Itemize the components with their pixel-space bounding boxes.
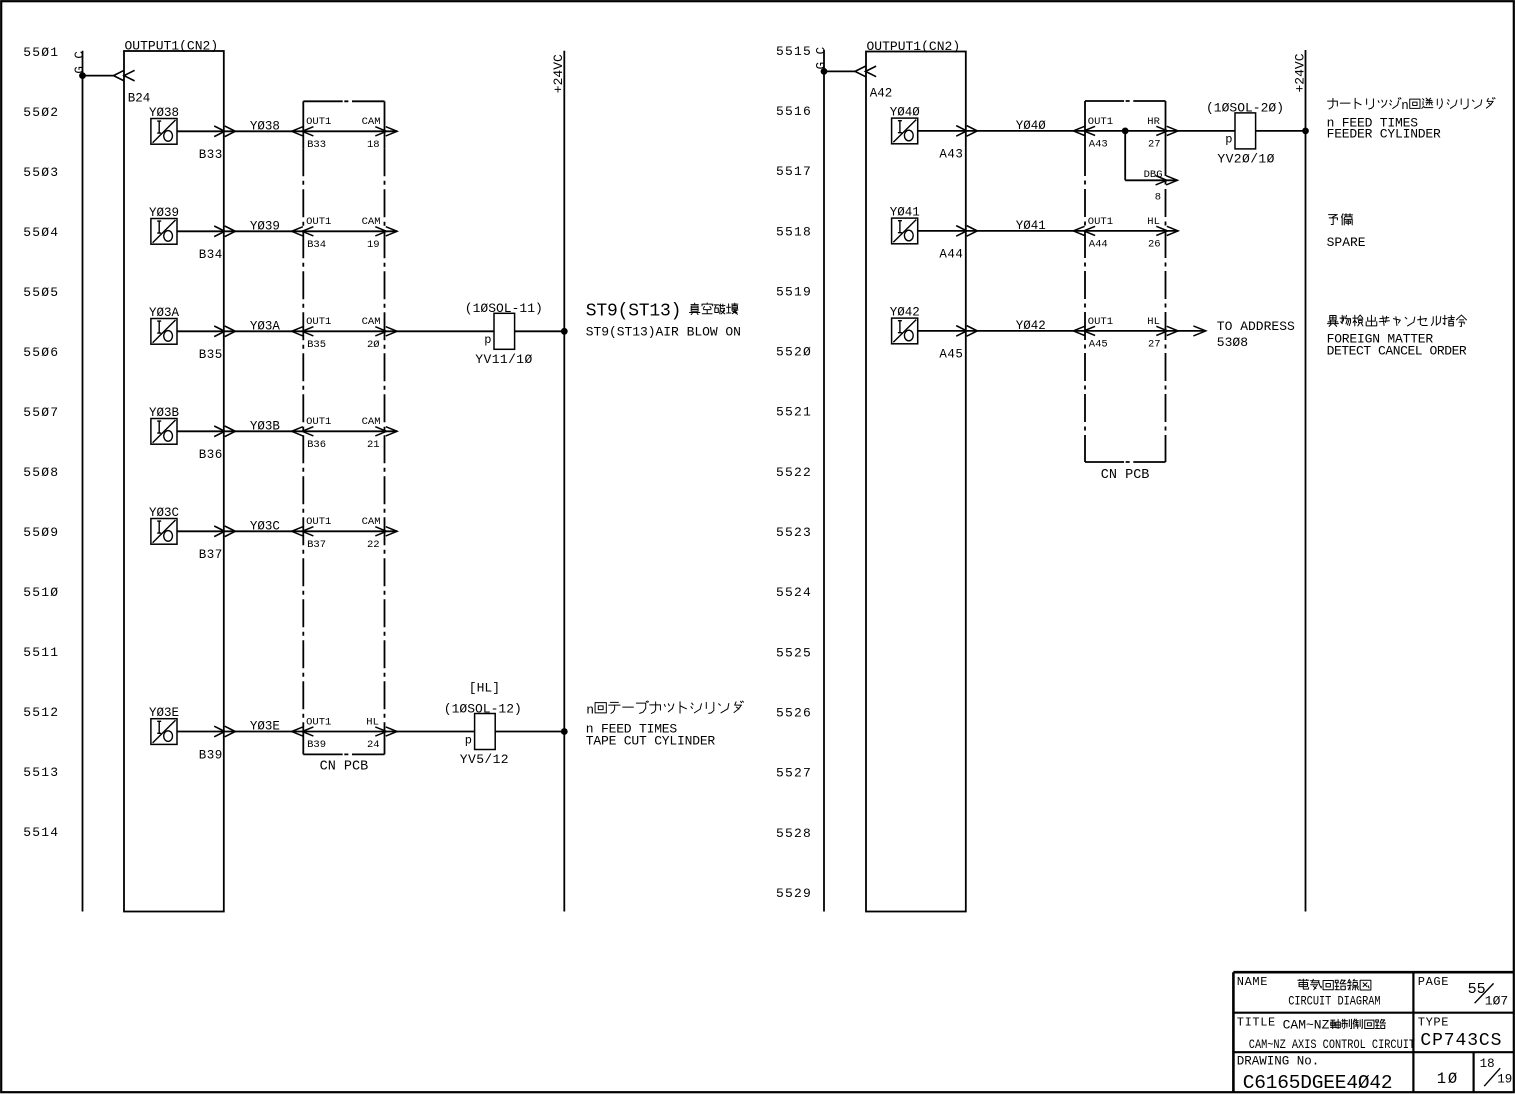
- node annotation FOREIGN MATTER / DETECT CANCEL ORDER: [1327, 331, 1467, 358]
- wire Y039 from module through OUTPUT1 edge to CN PCB: [177, 230, 397, 232]
- svg-text:DETECT CANCEL ORDER: DETECT CANCEL ORDER: [1327, 343, 1467, 358]
- wire Y041 from module through OUTPUT1 edge to CN PCB: [918, 230, 1178, 232]
- svg-text:CAM: CAM: [362, 116, 381, 128]
- svg-text:55Ø5: 55Ø5: [23, 285, 59, 300]
- junction on +24VC rail (Y03E): [561, 728, 568, 735]
- node A45 (pin label under Y042): [939, 348, 963, 362]
- svg-text:A43: A43: [939, 148, 963, 162]
- svg-text:CN PCB: CN PCB: [1101, 468, 1150, 483]
- node line 5504: [23, 225, 59, 240]
- connector arrows at CN PCB left edge (Y040): [1073, 126, 1095, 135]
- svg-text:OUT1: OUT1: [1088, 216, 1113, 228]
- node line 5505: [23, 285, 59, 300]
- node A43 (pin label under Y040): [939, 148, 963, 162]
- pin OUT1 / B35 (Y03A): [306, 316, 331, 351]
- svg-text:CAM: CAM: [362, 316, 381, 328]
- svg-text:27: 27: [1148, 338, 1161, 350]
- svg-text:5512: 5512: [23, 705, 59, 720]
- svg-text:HR: HR: [1147, 116, 1160, 128]
- svg-text:B33: B33: [199, 148, 223, 162]
- svg-text:5522: 5522: [776, 465, 812, 480]
- node sheet 18/19: [1480, 1057, 1513, 1086]
- node line 5519: [776, 284, 812, 299]
- svg-text:552Ø: 552Ø: [776, 345, 812, 360]
- svg-text:CAM: CAM: [362, 516, 381, 528]
- pin OUT1 / B34 (Y039): [306, 216, 331, 251]
- svg-text:1Ø7: 1Ø7: [1485, 994, 1508, 1009]
- I/O output module Y041: [890, 206, 920, 244]
- wire Y03E to solenoid YV5/12: [397, 731, 475, 733]
- node annotation ST9(ST13) vacuum break (JP): [586, 301, 738, 321]
- wire solenoid to +24VC rail (Y040): [1256, 130, 1306, 132]
- svg-text:5528: 5528: [776, 826, 812, 841]
- connector arrows at OUTPUT1 edge (Y03E): [214, 726, 235, 737]
- svg-text:OUT1: OUT1: [306, 416, 331, 428]
- connector arrows at OUTPUT1 edge (Y038): [214, 126, 235, 137]
- wire G C rail (left): [82, 51, 84, 912]
- node line 5525: [776, 645, 812, 660]
- svg-text:CAM~NZ: CAM~NZ: [1283, 1018, 1330, 1033]
- node A44 (pin label under Y041): [939, 248, 963, 262]
- node NAME cell: CIRCUIT DIAGRAM: [1237, 975, 1381, 1009]
- svg-text:B39: B39: [307, 739, 326, 751]
- pin CAM / 22 (Y03C): [362, 516, 381, 551]
- connector arrows at CN PCB right edge (Y03B): [375, 427, 397, 436]
- node line 5527: [776, 766, 812, 781]
- svg-text:5523: 5523: [776, 525, 812, 540]
- I/O output module Y03A: [149, 306, 180, 344]
- connector arrows at OUTPUT1 edge (Y039): [214, 226, 235, 237]
- node B39 (pin label under Y03E): [199, 748, 223, 762]
- svg-text:CN PCB: CN PCB: [320, 760, 369, 775]
- junction on +24VC rail (Y040): [1302, 127, 1309, 134]
- svg-text:22: 22: [367, 539, 380, 551]
- I/O output module Y040: [890, 106, 921, 144]
- svg-text:5519: 5519: [776, 284, 812, 299]
- svg-text:G C: G C: [73, 51, 87, 74]
- svg-text:OUT1: OUT1: [306, 216, 331, 228]
- node line 5509: [23, 525, 59, 540]
- svg-text:B36: B36: [307, 439, 326, 451]
- svg-text:+24VC: +24VC: [551, 54, 566, 93]
- svg-text:A42: A42: [870, 86, 893, 100]
- pin OUT1 / A44 (Y041): [1088, 216, 1113, 251]
- node annotation n FEED TIMES / FEEDER CYLINDER: [1327, 115, 1441, 141]
- I/O output module Y038: [149, 106, 179, 144]
- wire label Y039: [250, 219, 280, 233]
- node line 5520: [776, 345, 812, 360]
- svg-text:B37: B37: [199, 548, 223, 562]
- svg-text:5515: 5515: [776, 44, 812, 59]
- wire label Y03B: [250, 419, 281, 433]
- node line 5502: [23, 105, 59, 120]
- pin CAM / 20 (Y03A): [362, 316, 381, 351]
- wire Y03E from module through OUTPUT1 edge to CN PCB: [177, 731, 397, 733]
- connector arrows at CN PCB right edge (Y040): [1156, 126, 1178, 135]
- connector arrows at CN PCB left edge (Y03A): [292, 327, 314, 336]
- svg-text:YØ3A: YØ3A: [250, 319, 281, 333]
- svg-text:OUT1: OUT1: [306, 716, 331, 728]
- connector arrows at CN PCB right edge (Y03C): [375, 527, 397, 536]
- wire label Y038: [250, 119, 280, 133]
- connector arrows at OUTPUT1 edge (Y041): [956, 226, 977, 237]
- node line 5503: [23, 165, 59, 180]
- connector arrows at CN PCB right edge (Y042): [1156, 326, 1178, 335]
- svg-text:B33: B33: [307, 139, 326, 151]
- svg-text:SPARE: SPARE: [1327, 235, 1366, 250]
- wire DBG branch from Y040 node down: [1125, 131, 1177, 180]
- node line 5510: [23, 585, 59, 600]
- wire label Y03A: [250, 319, 281, 333]
- node TITLE cell: CAM~NZ AXIS CONTROL CIRCUIT: [1237, 1016, 1415, 1053]
- svg-text:YØ39: YØ39: [250, 219, 280, 233]
- svg-text:5516: 5516: [776, 104, 812, 119]
- connector arrows at CN PCB right edge (Y03E): [375, 727, 397, 736]
- svg-text:OUT1: OUT1: [306, 516, 331, 528]
- svg-text:5529: 5529: [776, 886, 812, 901]
- connector arrows at OUTPUT1 edge (Y040): [956, 126, 977, 137]
- svg-text:B24: B24: [128, 91, 151, 105]
- pin HL / 24 (Y03E): [366, 716, 379, 751]
- node B35 (pin label under Y03A): [199, 348, 223, 362]
- svg-text:YØ42: YØ42: [1016, 319, 1046, 333]
- junction DBG branch on Y040 wire: [1122, 127, 1129, 134]
- svg-text:YV2Ø/1Ø: YV2Ø/1Ø: [1217, 152, 1274, 167]
- svg-text:5526: 5526: [776, 705, 812, 720]
- node line 5524: [776, 585, 812, 600]
- svg-text:B35: B35: [199, 348, 223, 362]
- connector arrows at CN PCB right edge (Y038): [375, 127, 397, 136]
- wire label Y03C: [250, 519, 280, 533]
- svg-text:5525: 5525: [776, 645, 812, 660]
- node G C label (left): [73, 51, 87, 74]
- svg-text:C6165DGEE4Ø42: C6165DGEE4Ø42: [1243, 1072, 1393, 1094]
- connector arrows at CN PCB left edge (Y03E): [292, 727, 314, 736]
- svg-text:YV11/1Ø: YV11/1Ø: [475, 352, 532, 367]
- svg-text:55Ø9: 55Ø9: [23, 525, 59, 540]
- svg-text:YØ38: YØ38: [250, 119, 280, 133]
- I/O output module Y039: [149, 206, 179, 244]
- svg-text:ST9(ST13)AIR BLOW ON: ST9(ST13)AIR BLOW ON: [586, 325, 741, 340]
- node line 5501: [23, 45, 59, 60]
- node G C label (right): [814, 47, 828, 70]
- svg-text:+24VC: +24VC: [1292, 53, 1307, 92]
- svg-text:OUT1: OUT1: [306, 316, 331, 328]
- svg-text:1Ø: 1Ø: [1437, 1070, 1459, 1088]
- svg-text:26: 26: [1148, 238, 1161, 250]
- connector arrows at OUTPUT1 edge (Y042): [956, 326, 977, 337]
- node line 5528: [776, 826, 812, 841]
- svg-text:5513: 5513: [23, 765, 59, 780]
- connector arrows at OUTPUT1 edge (Y03B): [214, 426, 235, 437]
- svg-text:18: 18: [1480, 1057, 1495, 1071]
- svg-text:CAM: CAM: [362, 216, 381, 228]
- svg-text:19: 19: [367, 239, 380, 251]
- svg-text:B36: B36: [199, 448, 223, 462]
- svg-text:27: 27: [1148, 138, 1161, 150]
- node +24VC label (left): [551, 54, 566, 93]
- svg-text:55Ø7: 55Ø7: [23, 405, 59, 420]
- svg-text:TO ADDRESS: TO ADDRESS: [1217, 319, 1295, 334]
- svg-text:YØ41: YØ41: [1016, 219, 1046, 233]
- svg-text:[HL]: [HL]: [469, 681, 500, 696]
- node line 5521: [776, 405, 812, 420]
- title block frame: [1233, 972, 1513, 1092]
- wire Y042 to address arrow: [1177, 326, 1205, 336]
- svg-text:5514: 5514: [23, 825, 59, 840]
- svg-text:8: 8: [1155, 192, 1161, 204]
- node annotation SPARE (JP): [1329, 214, 1353, 225]
- svg-text:55Ø6: 55Ø6: [23, 345, 59, 360]
- connector arrows at CN PCB left edge (Y038): [292, 127, 314, 136]
- node line 5522: [776, 465, 812, 480]
- solenoid YV5/12 (10SOL-12): [444, 701, 522, 767]
- svg-text:HL: HL: [1147, 316, 1160, 328]
- pin CAM / 19 (Y039): [362, 216, 381, 251]
- svg-text:A45: A45: [939, 348, 963, 362]
- pin HR / 27 (Y040): [1147, 116, 1160, 151]
- connector block OUTPUT1(CN2) (right): [866, 39, 966, 912]
- pin DBG / 8: [1144, 169, 1163, 203]
- svg-text:B34: B34: [199, 248, 223, 262]
- svg-text:YØ4Ø: YØ4Ø: [1016, 119, 1047, 133]
- junction on G C rail (left): [79, 72, 86, 79]
- wire Y040 to solenoid YV20/10: [1178, 130, 1235, 132]
- svg-text:A45: A45: [1089, 338, 1108, 350]
- svg-text:OUT1: OUT1: [1088, 316, 1113, 328]
- node TYPE cell: CP743CS: [1418, 1016, 1503, 1051]
- svg-text:n: n: [1401, 99, 1409, 113]
- svg-text:B34: B34: [307, 239, 326, 251]
- I/O output module Y042: [890, 306, 920, 344]
- node [HL] label: [469, 681, 500, 696]
- connector arrows at CN PCB left edge (Y042): [1073, 326, 1095, 335]
- svg-text:p: p: [1225, 133, 1232, 147]
- junction on G C rail (right): [821, 68, 828, 75]
- svg-text:n: n: [586, 702, 594, 717]
- wire label Y03E: [250, 720, 280, 734]
- node line 5515: [776, 44, 812, 59]
- svg-text:FEEDER CYLINDER: FEEDER CYLINDER: [1327, 127, 1441, 142]
- node line 5517: [776, 164, 812, 179]
- node line 5526: [776, 705, 812, 720]
- node annotation cartridge n-times feeder cylinder (JP): [1328, 98, 1495, 113]
- pin HL / 26 (Y041): [1147, 216, 1160, 251]
- wire Y03C from module through OUTPUT1 edge to CN PCB: [177, 530, 397, 532]
- node +24VC label (right): [1292, 53, 1307, 92]
- connector arrows at CN PCB right edge (Y041): [1156, 226, 1178, 235]
- connector arrows at OUTPUT1 edge (Y03C): [214, 526, 235, 537]
- svg-text:DRAWING No.: DRAWING No.: [1237, 1055, 1320, 1069]
- node CN PCB label (right): [1101, 468, 1150, 483]
- svg-text:ST9(ST13): ST9(ST13): [586, 301, 681, 321]
- svg-text:24: 24: [367, 739, 380, 751]
- wire Y03B from module through OUTPUT1 edge to CN PCB: [177, 430, 397, 432]
- pin OUT1 / B33 (Y038): [306, 116, 331, 151]
- wire label Y041: [1016, 219, 1046, 233]
- svg-text:OUTPUT1(CN2): OUTPUT1(CN2): [867, 39, 961, 54]
- node annotation ST9(ST13)AIR BLOW ON: [586, 325, 741, 340]
- pin OUT1 / B36 (Y03B): [306, 416, 331, 451]
- svg-text:55Ø1: 55Ø1: [23, 45, 59, 60]
- wire from G C to OUTPUT1 connector arrow (left): [83, 70, 135, 81]
- I/O output module Y03B: [149, 406, 180, 444]
- connector arrows at CN PCB left edge (Y039): [292, 227, 314, 236]
- svg-text:A44: A44: [1089, 238, 1108, 250]
- svg-text:5521: 5521: [776, 405, 812, 420]
- svg-text:5517: 5517: [776, 164, 812, 179]
- node A42: [870, 86, 893, 100]
- svg-text:551Ø: 551Ø: [23, 585, 59, 600]
- connector box CN PCB (right): [1085, 101, 1166, 462]
- wire label Y040: [1016, 119, 1047, 133]
- node line 5508: [23, 465, 59, 480]
- node annotation n FEED TIMES / TAPE CUT CYLINDER: [586, 722, 716, 749]
- node PAGE cell: 55/107: [1418, 975, 1508, 1008]
- svg-text:5511: 5511: [23, 645, 59, 660]
- node line 5529: [776, 886, 812, 901]
- svg-text:55Ø8: 55Ø8: [23, 465, 59, 480]
- svg-text:CIRCUIT DIAGRAM: CIRCUIT DIAGRAM: [1288, 994, 1380, 1010]
- node line 5518: [776, 224, 812, 239]
- pin CAM / 21 (Y03B): [362, 416, 381, 451]
- node line 5513: [23, 765, 59, 780]
- svg-text:G C: G C: [814, 47, 828, 70]
- connector arrows at CN PCB right edge (Y039): [375, 227, 397, 236]
- node annotation n-times tape cut cylinder (JP): [586, 701, 743, 717]
- wire G C rail (right): [823, 50, 825, 912]
- node CN PCB label (left): [320, 760, 369, 775]
- svg-text:TITLE: TITLE: [1237, 1016, 1276, 1030]
- connector arrows at CN PCB left edge (Y041): [1073, 226, 1095, 235]
- wire Y03A from module through OUTPUT1 edge to CN PCB: [177, 330, 397, 332]
- svg-text:2Ø: 2Ø: [367, 339, 380, 351]
- svg-text:HL: HL: [366, 716, 379, 728]
- svg-text:53Ø8: 53Ø8: [1217, 335, 1248, 350]
- svg-text:21: 21: [367, 439, 380, 451]
- svg-text:p: p: [465, 733, 472, 747]
- svg-text:PAGE: PAGE: [1418, 975, 1449, 989]
- svg-text:5524: 5524: [776, 585, 812, 600]
- svg-text:YØ3B: YØ3B: [250, 419, 281, 433]
- wire Y03A to solenoid YV11/10: [397, 330, 494, 332]
- I/O output module Y03C: [149, 506, 179, 544]
- node line 5506: [23, 345, 59, 360]
- node line 5514: [23, 825, 59, 840]
- solenoid YV11/10 (10SOL-11): [465, 301, 543, 367]
- node annotation foreign matter detect cancel (JP): [1327, 315, 1466, 326]
- svg-text:OUTPUT1(CN2): OUTPUT1(CN2): [125, 39, 219, 54]
- connector arrows at CN PCB left edge (Y03B): [292, 427, 314, 436]
- svg-text:TAPE CUT CYLINDER: TAPE CUT CYLINDER: [586, 734, 716, 749]
- node line 5511: [23, 645, 59, 660]
- svg-text:CAM: CAM: [362, 416, 381, 428]
- svg-text:NAME: NAME: [1237, 975, 1268, 989]
- solenoid YV20/10 (10SOL-20): [1206, 101, 1284, 167]
- svg-text:CP743CS: CP743CS: [1420, 1031, 1502, 1051]
- svg-text:19: 19: [1497, 1073, 1512, 1087]
- pin CAM / 18 (Y038): [362, 116, 381, 151]
- wire solenoid to +24VC rail (Y03A): [515, 330, 565, 332]
- svg-text:55: 55: [1468, 981, 1486, 998]
- node sheet number 10: [1437, 1070, 1459, 1088]
- svg-text:YV5/12: YV5/12: [460, 752, 509, 767]
- svg-text:HL: HL: [1147, 216, 1160, 228]
- node B33 (pin label under Y038): [199, 148, 223, 162]
- wire Y038 from module through OUTPUT1 edge to CN PCB: [177, 130, 397, 132]
- connector arrows DBG at CN PCB right edge: [1156, 176, 1178, 185]
- svg-text:CAM~NZ AXIS CONTROL CIRCUIT: CAM~NZ AXIS CONTROL CIRCUIT: [1249, 1037, 1415, 1053]
- wire Y042 from module through OUTPUT1 edge to CN PCB: [918, 330, 1178, 332]
- svg-text:YØ3C: YØ3C: [250, 519, 280, 533]
- svg-text:TYPE: TYPE: [1418, 1016, 1449, 1030]
- power rail +24VC (right): [1305, 50, 1307, 912]
- svg-text:OUT1: OUT1: [306, 116, 331, 128]
- pin OUT1 / B37 (Y03C): [306, 516, 331, 551]
- svg-text:18: 18: [367, 139, 380, 151]
- node B37 (pin label under Y03C): [199, 548, 223, 562]
- wire Y040 from module through OUTPUT1 edge to CN PCB: [918, 130, 1178, 132]
- svg-text:55Ø4: 55Ø4: [23, 225, 59, 240]
- node annotation SPARE: [1327, 235, 1366, 250]
- connector arrows at CN PCB left edge (Y03C): [292, 527, 314, 536]
- I/O output module Y03E: [149, 706, 179, 744]
- svg-text:55Ø2: 55Ø2: [23, 105, 59, 120]
- connector block OUTPUT1(CN2) (left): [124, 39, 224, 912]
- wire solenoid to +24VC rail (Y03E): [495, 731, 564, 733]
- connector arrows at CN PCB right edge (Y03A): [375, 327, 397, 336]
- node line 5512: [23, 705, 59, 720]
- junction on +24VC rail (Y03A): [561, 328, 568, 335]
- svg-text:5518: 5518: [776, 224, 812, 239]
- pin OUT1 / A45 (Y042): [1088, 316, 1113, 351]
- svg-text:OUT1: OUT1: [1088, 116, 1113, 128]
- power rail +24VC (left): [563, 51, 565, 912]
- svg-text:B37: B37: [307, 539, 326, 551]
- connector arrows at OUTPUT1 edge (Y03A): [214, 326, 235, 337]
- pin HL / 27 (Y042): [1147, 316, 1160, 351]
- svg-text:A44: A44: [939, 248, 963, 262]
- svg-text:5527: 5527: [776, 766, 812, 781]
- svg-text:p: p: [484, 333, 491, 347]
- node line 5507: [23, 405, 59, 420]
- node DRAWING No. cell: C6165DGEE4042: [1237, 1055, 1393, 1094]
- connector box CN PCB (left): [303, 101, 384, 754]
- wire from G C to OUTPUT1 connector arrow (right): [824, 66, 876, 77]
- svg-text:55Ø3: 55Ø3: [23, 165, 59, 180]
- svg-text:YØ3E: YØ3E: [250, 720, 280, 734]
- node line 5516: [776, 104, 812, 119]
- svg-text:DBG: DBG: [1144, 169, 1163, 181]
- node B24: [128, 91, 151, 105]
- svg-text:B35: B35: [307, 339, 326, 351]
- node line 5523: [776, 525, 812, 540]
- pin OUT1 / B39 (Y03E): [306, 716, 331, 751]
- svg-text:A43: A43: [1089, 138, 1108, 150]
- node B34 (pin label under Y039): [199, 248, 223, 262]
- wire label Y042: [1016, 319, 1046, 333]
- node TO ADDRESS 5308: [1217, 319, 1295, 350]
- node B36 (pin label under Y03B): [199, 448, 223, 462]
- svg-text:B39: B39: [199, 748, 223, 762]
- pin OUT1 / A43 (Y040): [1088, 116, 1113, 151]
